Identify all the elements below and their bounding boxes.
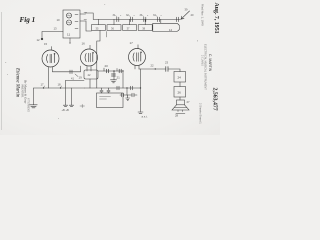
triode V3 [129,49,146,66]
dropper to lower bus [122,71,124,88]
aux mark [80,104,85,107]
stub under box2 [105,32,107,38]
svg-text:ELECTRICAL MUSICAL INSTRUMENT: ELECTRICAL MUSICAL INSTRUMENT [204,44,208,90]
svg-text:Etienne Martin: Etienne Martin [15,67,20,98]
chain capacitor 3 [144,17,146,21]
chain capacitor 2 [130,17,132,21]
filter box 4 [144,19,146,24]
generator box 11 [63,10,80,38]
mid bus tick [103,68,105,71]
chain capacitor 1 [117,17,119,21]
box coupling cap b [107,88,110,93]
svg-text:11: 11 [67,33,70,37]
triode V2 [81,49,98,66]
svg-text:13: 13 [54,27,58,31]
amplifier box 24 [174,72,186,83]
V3 cathode leads [135,65,139,69]
svg-text:23: 23 [165,61,169,65]
svg-text:INVENTOR.: INVENTOR. [21,84,24,98]
svg-text:2,563,477: 2,563,477 [212,88,218,111]
filter box 2 [113,19,115,24]
wire input to generator box [42,32,63,39]
svg-text:20: 20 [105,64,109,68]
battery drop a [65,81,67,106]
svg-text:15: 15 [44,42,48,46]
wiper arrow [181,11,190,19]
junction [113,70,115,72]
svg-text:Fig 1: Fig 1 [20,16,36,24]
svg-text:26: 26 [178,91,182,95]
capacitor 21b on mid bus [119,69,121,73]
long dropper with terminal [140,69,142,112]
bottom-left cathode line [34,87,85,89]
chain capacitor 5 [176,17,178,21]
node 17 [43,87,44,88]
svg-text:22: 22 [151,64,155,68]
svg-text:2 Sheets-Sheet 1: 2 Sheets-Sheet 1 [199,103,203,124]
amplifier box 26 [174,87,186,98]
svg-text:21: 21 [117,76,121,80]
svg-text:a.s.t.: a.s.t. [142,115,148,119]
svg-text:ATTORNEYS: ATTORNEYS [27,98,30,112]
svg-text:16: 16 [82,42,86,46]
loudspeaker 28 [177,100,185,105]
svg-text:Aug. 7, 1951: Aug. 7, 1951 [213,3,219,34]
ground symbol mid [111,80,117,83]
svg-text:19: 19 [79,76,83,80]
caps on line y95 [122,93,135,97]
triode V1 [42,50,59,67]
grid dropper wire A [97,30,100,88]
scan specks [5,4,198,119]
box link [179,82,181,100]
filter box 1 [97,19,99,24]
box top line [85,87,141,89]
svg-text:10: 10 [57,18,61,22]
svg-text:2 CLAIMS: 2 CLAIMS [201,55,204,66]
input terminal 12 [41,38,43,40]
V1 cathode lead [48,67,50,88]
filter chain top line [93,18,180,20]
coupling V1 to V2 [53,66,81,72]
svg-text:17: 17 [130,41,134,45]
svg-text:28: 28 [175,114,179,118]
delay chamber rounded box [153,23,180,31]
svg-text:Filed Nov. 1, 1949: Filed Nov. 1, 1949 [201,4,205,26]
generator output stubs [80,14,86,21]
signature block [15,67,30,112]
V2 cathode leads [87,66,91,71]
cap 18a on top line [117,86,119,90]
mid bus line [98,70,123,72]
scan edge line [1,12,3,130]
wire generator to filter chain [86,21,91,31]
svg-text:17: 17 [41,83,45,87]
bias line [66,80,85,82]
small ground [126,95,130,101]
filter box 3 [129,19,131,24]
capacitor 21 to ground [113,71,115,80]
svg-text:27: 27 [187,100,191,104]
svg-text:12: 12 [37,38,41,42]
svg-text:+B +B: +B +B [62,108,69,112]
ground left [33,88,35,105]
battery drop b [71,88,73,105]
chain capacitor 4 [157,17,159,21]
coupling label arrow 19 [75,74,78,77]
svg-text:24: 24 [178,76,182,80]
wire generator top to chain [86,13,94,19]
output capacitor 23 [166,67,168,72]
box coupling cap a [100,88,103,93]
V3 output line [139,68,165,70]
V2 cathode network box [84,70,98,79]
dropper to box row [126,88,128,95]
node 18 [60,87,61,88]
capacitor 20 [107,69,109,73]
svg-text:18: 18 [58,83,62,87]
svg-text:C. MARTIN: C. MARTIN [208,54,212,72]
keyboard box [97,93,124,108]
